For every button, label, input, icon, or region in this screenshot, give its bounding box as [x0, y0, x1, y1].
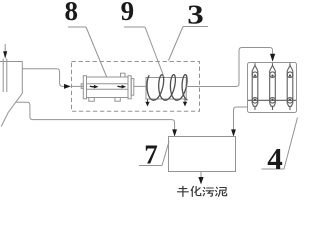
svg-text:4: 4	[267, 141, 283, 176]
svg-text:7: 7	[144, 140, 158, 170]
svg-text:9: 9	[121, 0, 135, 26]
svg-text:3: 3	[187, 0, 203, 30]
svg-text:8: 8	[64, 0, 78, 26]
